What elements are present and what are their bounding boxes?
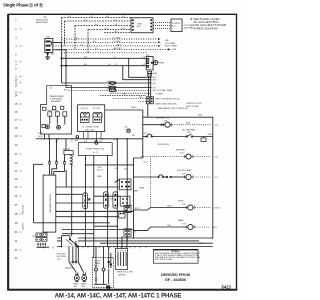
svg-text:GAS HEAT: GAS HEAT [176, 149, 186, 152]
svg-text:OPERATE: OPERATE [21, 223, 24, 232]
svg-text:- 8,9,18: - 8,9,18 [213, 208, 221, 210]
wire: tie row y165 [85, 164, 133, 166]
notice box [154, 250, 199, 264]
overload heater 2OL [103, 192, 108, 208]
wire: tie row y187 [56, 186, 120, 188]
svg-text:4-0: 4-0 [115, 24, 118, 26]
svg-text:ELECTRIC HEAT: ELECTRIC HEAT [177, 169, 192, 172]
svg-text:M-1: M-1 [132, 135, 135, 137]
svg-text:1TAB: 1TAB [137, 23, 142, 26]
wire: vertical bus V5 [126, 139, 128, 241]
wire: vertical bus V4 [116, 139, 118, 247]
svg-text:TLM-RST H-20: TLM-RST H-20 [157, 144, 169, 146]
cycle timer box [93, 258, 114, 288]
svg-text:ASSEMBLY: ASSEMBLY [51, 100, 62, 103]
svg-text:3-0: 3-0 [95, 24, 98, 26]
svg-text:A-2B: A-2B [153, 72, 158, 75]
relay block D [124, 229, 131, 236]
drop wires to fuse rows [148, 76, 150, 97]
svg-text:208 or 230: 208 or 230 [85, 129, 94, 132]
svg-text:GRD 4: GRD 4 [167, 206, 173, 208]
T1 winding B [93, 112, 102, 114]
dashed supply ladder to terminal block [62, 18, 131, 53]
wire: tie row y217 [56, 216, 119, 218]
svg-text:1OL: 1OL [114, 168, 117, 170]
svg-text:2-0: 2-0 [95, 48, 98, 50]
svg-text:PI-LGT: PI-LGT [97, 170, 104, 172]
relay block B [120, 196, 130, 206]
svg-text:AM -14, AM -14C, AM -14T, AM -: AM -14, AM -14C, AM -14T, AM -14TC 1 PHA… [55, 294, 182, 300]
vertical bus L1 [61, 43, 63, 84]
svg-text:C-2: C-2 [70, 141, 73, 143]
svg-text:H - 21: H - 21 [93, 152, 98, 154]
T1 tap blocks [80, 117, 89, 122]
control box [171, 19, 182, 32]
svg-text:ALL GAS HEAT: ALL GAS HEAT [183, 129, 196, 132]
rectifier circles [46, 125, 50, 129]
transformer fuse board assembly [41, 86, 72, 134]
controller feed wires [49, 139, 51, 162]
svg-text:8-0: 8-0 [106, 16, 109, 18]
wash motor feed [77, 247, 79, 263]
svg-text:BSTR 2 GAS, ELECTRIC: BSTR 2 GAS, ELECTRIC [156, 103, 178, 106]
svg-text:DRN-1: DRN-1 [131, 107, 137, 109]
svg-text:4 AMP: 4 AMP [133, 190, 139, 193]
svg-text:OPTIONAL: OPTIONAL [165, 42, 176, 45]
dashed wire above T1 [100, 95, 146, 97]
T1 winding A [81, 112, 90, 114]
left line-number column [15, 20, 18, 261]
overload heater 1OL [83, 193, 88, 209]
wire: tie row y226 [94, 225, 118, 227]
svg-text:8-0: 8-0 [75, 37, 78, 39]
svg-text:2-0: 2-0 [114, 19, 117, 21]
feed wires to pump contactor [62, 57, 147, 59]
booster pin headers [146, 97, 149, 104]
svg-text:1-0: 1-0 [90, 16, 93, 18]
svg-text:RINSE SOL & TMR: RINSE SOL & TMR [117, 272, 133, 274]
relay block A [115, 180, 120, 183]
terminal pads below controller [36, 233, 41, 237]
junction bump on control bus [76, 136, 79, 139]
spare leads [72, 247, 74, 262]
svg-text:Single Phase (1 of 3): Single Phase (1 of 3) [3, 3, 43, 8]
svg-text:1.5 AMP: 1.5 AMP [156, 92, 164, 95]
svg-text:3A 208-240V: 3A 208-240V [36, 19, 49, 22]
wire: tie row y196 [94, 195, 120, 197]
svg-text:WASH: WASH [178, 219, 184, 222]
svg-text:1-0 GALV: 1-0 GALV [113, 36, 122, 39]
wire: vertical bus V1 [84, 155, 86, 246]
heat options enclosure [134, 110, 213, 239]
svg-text:ELEC. HEAT: ELEC. HEAT [165, 45, 178, 48]
svg-text:T1 CONNECTIONS: T1 CONNECTIONS [82, 127, 99, 129]
note: see inside cover of gas heat box [190, 17, 227, 30]
wire: vertical bus V2 [93, 155, 95, 258]
transformer T1 connections box [78, 105, 105, 132]
svg-text:BOOSTER: BOOSTER [57, 256, 66, 258]
thermostat block on gas heat row [203, 137, 205, 139]
wires from 1CB [53, 42, 62, 44]
center tiny labels [88, 167, 127, 201]
row tick dashes [20, 29, 22, 250]
svg-text:8-0: 8-0 [93, 41, 96, 43]
blade switch on gas heat row [186, 136, 187, 137]
svg-text:GALV BLK: GALV BLK [113, 47, 122, 50]
svg-text:ELECTRIC: ELECTRIC [57, 254, 67, 256]
svg-text:1CB: 1CB [172, 49, 177, 51]
solenoid feeds [116, 247, 118, 249]
terminal squares [42, 124, 45, 127]
terminal block 1TAB [131, 18, 153, 33]
svg-text:L-1: L-1 [143, 57, 146, 59]
wire: vertical bus V3 [107, 155, 109, 246]
relay block C [124, 205, 131, 212]
border frame [9, 14, 237, 289]
svg-text:DERIVED FROM: DERIVED FROM [161, 273, 190, 277]
svg-text:B-0: B-0 [84, 64, 87, 66]
svg-text:GALV: GALV [116, 43, 121, 46]
drain switch symbol [62, 236, 78, 247]
svg-text:RINSE: RINSE [178, 201, 184, 203]
svg-text:B-0: B-0 [84, 57, 87, 59]
svg-text:OPTIONAL: OPTIONAL [184, 24, 195, 27]
terminal block below 1M [148, 71, 152, 76]
wire: tie row y229 [62, 229, 134, 231]
pump motor feed [68, 247, 70, 263]
wire: bottom bus 2 [57, 240, 199, 242]
wire from controller left side [34, 163, 43, 165]
svg-text:GAS HEAT SYS: GAS HEAT SYS [156, 116, 170, 119]
svg-text:2-0: 2-0 [68, 16, 71, 18]
svg-text:1FU: 1FU [64, 89, 68, 91]
svg-text:6-0: 6-0 [115, 31, 118, 33]
svg-text:GAS HEAT: GAS HEAT [184, 27, 195, 30]
svg-text:2-0: 2-0 [122, 16, 125, 18]
optional heat dotted wires with arrows [54, 39, 169, 53]
svg-text:GND: GND [50, 54, 55, 56]
svg-text:1WKB: 1WKB [139, 188, 145, 190]
svg-text:GRN: GRN [186, 122, 191, 124]
dotted option rows [68, 89, 151, 91]
svg-text:1CFU: 1CFU [97, 167, 102, 169]
svg-text:2-0 GALV: 2-0 GALV [113, 40, 122, 43]
svg-text:5423: 5423 [222, 284, 232, 289]
wire: bottom bus 4 [57, 246, 213, 248]
svg-text:2OL: 2OL [124, 169, 127, 171]
svg-text:L-0: L-0 [108, 64, 111, 66]
svg-text:ELECTRICAL CODES.: ELECTRICAL CODES. [155, 258, 173, 261]
svg-text:MAX WATER COND TO BSTR 190: MAX WATER COND TO BSTR 190 [158, 107, 188, 110]
svg-text:A-3: A-3 [33, 235, 36, 238]
svg-text:SEE NOTE 2 FOR: SEE NOTE 2 FOR [187, 103, 203, 105]
pump motor [75, 272, 77, 275]
fork plug connectors [48, 161, 50, 163]
svg-text:1-0: 1-0 [80, 44, 83, 46]
svg-text:SEQUENCE: SEQUENCE [21, 205, 23, 215]
svg-text:FL 5: FL 5 [144, 161, 148, 163]
svg-text:BSTR: BSTR [135, 208, 140, 210]
svg-text:AMP. ATC: AMP. ATC [119, 274, 128, 277]
fuse 1FU rating labels [36, 17, 49, 24]
svg-text:5-0: 5-0 [105, 28, 108, 30]
rinse solenoid box [116, 249, 128, 270]
wire: bottom bus 3 [100, 242, 213, 244]
coil drop wire [71, 165, 73, 239]
svg-text:X1 X2 X3: X1 X2 X3 [81, 108, 88, 110]
vertical bus L2 [65, 50, 67, 88]
svg-text:5-0: 5-0 [122, 28, 125, 30]
svg-text:4FU OPTIONAL 15 AMP: 4FU OPTIONAL 15 AMP [153, 89, 174, 92]
svg-text:WIRING DIAGRAM: WIRING DIAGRAM [193, 26, 218, 30]
svg-text:GRN: GRN [208, 134, 213, 136]
pump motor symbol [154, 60, 158, 64]
heater coil symbol [70, 155, 73, 166]
microcomputer board [43, 175, 56, 232]
wire: tie row y203 [56, 202, 104, 204]
wire labels on ladder [68, 16, 125, 33]
wire: tie row y234 [62, 233, 94, 235]
wire: tie row y211 [56, 210, 134, 212]
svg-text:BSTR 70 RISE: BSTR 70 RISE [187, 106, 200, 108]
fuse row 4FU [129, 58, 151, 77]
wire: tie row y223 [34, 222, 110, 224]
inline fuses on rows [109, 82, 116, 85]
svg-text:BSTR 1 BOOSTER OPTION: BSTR 1 BOOSTER OPTION [156, 99, 181, 101]
fuse row 1FU [66, 87, 151, 89]
plug to board routing [49, 165, 51, 175]
drops from assembly to bus [43, 134, 45, 139]
svg-text:8A 380-480V: 8A 380-480V [36, 21, 49, 24]
svg-text:X1 X2 X3: X1 X2 X3 [93, 108, 100, 110]
svg-text:3MFU: 3MFU [97, 176, 103, 178]
svg-text:PUMP INTERLOCK: PUMP INTERLOCK [86, 148, 104, 150]
wire: bottom bus 1 [57, 237, 213, 239]
svg-text:L-1: L-1 [115, 64, 118, 66]
svg-text:B-2: B-2 [50, 87, 53, 89]
tick labels under bottom bus [44, 247, 146, 249]
wash motor [82, 272, 84, 275]
svg-text:GF - 834536: GF - 834536 [165, 278, 186, 282]
electric booster option label [57, 254, 73, 270]
overload heater 3OL [113, 192, 118, 208]
svg-text:PUMP: PUMP [159, 63, 165, 65]
fuse row 3FU [123, 66, 151, 80]
svg-text:GRN: GRN [198, 115, 203, 117]
svg-text:2-0: 2-0 [84, 19, 87, 21]
svg-text:L-1: L-1 [114, 57, 117, 59]
svg-text:D-0: D-0 [123, 94, 126, 96]
svg-text:A-2: A-2 [75, 139, 78, 142]
svg-text:L-1: L-1 [143, 64, 146, 66]
svg-text:MICROCOMPUTER: MICROCOMPUTER [49, 194, 51, 213]
fuse row 2FU [62, 82, 151, 84]
wire: tie row y194 [56, 193, 83, 195]
control bus [36, 138, 143, 140]
svg-text:- 8,13: - 8,13 [212, 227, 218, 229]
connector comb below pads [37, 246, 49, 248]
ground below 1CB [47, 52, 49, 57]
svg-text:1HL: 1HL [125, 126, 128, 128]
